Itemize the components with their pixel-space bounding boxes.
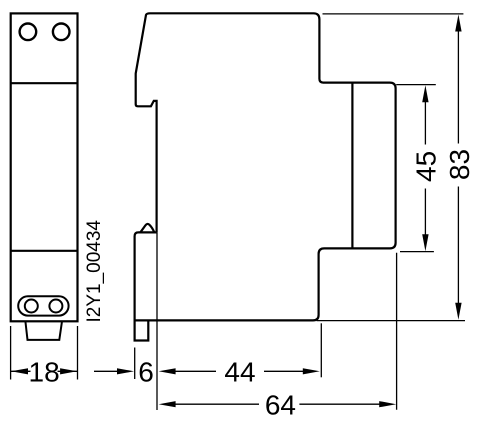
svg-text:44: 44 (224, 356, 255, 387)
dimension 18 arrowhead right (60, 368, 77, 374)
dimension 64 arrowhead right (379, 401, 396, 407)
dimension 6 outside arrow tail (94, 370, 122, 372)
dimension 18 line left segment (11, 370, 31, 372)
dimension 64 line right segment (299, 403, 384, 405)
svg-text:6: 6 (138, 356, 154, 387)
dimension 18 line right segment (58, 370, 78, 372)
front view upper divider line (11, 82, 78, 84)
din rail clip lower ledge and foot (135, 232, 157, 340)
dimension 45 arrowhead down (422, 234, 428, 251)
dimension 44 arrowhead right (303, 368, 320, 374)
dimension 64 line left segment (172, 403, 259, 405)
dimension 44 line left segment (172, 370, 216, 372)
front bezel inner edge line (351, 83, 353, 249)
bottom connector tab of front view (25, 321, 62, 340)
dimension 45 line lower segment (424, 189, 426, 239)
dimension 45 arrowhead up (422, 85, 428, 102)
svg-text:18: 18 (29, 356, 60, 387)
lower terminal slot stadium (18, 296, 68, 315)
svg-text:I2Y1_00434: I2Y1_00434 (84, 220, 105, 323)
terminal screw circle right (53, 24, 70, 41)
dimension 44 extension line right (320, 323, 322, 377)
front view lower divider line (11, 250, 78, 252)
front view body rectangle (11, 13, 78, 321)
dimension 6 outside arrowhead (117, 368, 134, 374)
dimension 83 arrowhead up (455, 15, 461, 32)
dimension 64 extension line right (396, 253, 398, 410)
svg-text:64: 64 (265, 389, 296, 420)
dimension 6 extension line left below foot (134, 348, 136, 380)
dimension 64 arrowhead left (159, 401, 176, 407)
svg-text:83: 83 (444, 149, 475, 180)
dimension 45 extension line top (396, 84, 436, 86)
dimension 44 arrowhead left (159, 368, 176, 374)
dimension 83 arrowhead down (455, 303, 461, 320)
dimension 83 line lower segment (457, 187, 459, 308)
dimension 18 extension line right (77, 326, 79, 380)
side view outer outline (135, 13, 396, 320)
dimension 45 line upper segment (424, 99, 426, 145)
dimension 44 line right segment (264, 370, 307, 372)
dimension 18 extension line left (10, 326, 12, 380)
dimension 18 arrowhead left (11, 368, 28, 374)
slot screw circle left (25, 300, 38, 313)
dimension 45 extension line bottom (400, 251, 434, 253)
dimension 83 line upper segment (457, 28, 459, 144)
dimension 83 extension line bottom (317, 320, 466, 322)
svg-text:45: 45 (410, 151, 441, 182)
terminal screw circle left (20, 24, 37, 41)
slot screw circle right (49, 300, 62, 313)
shared extension line at rail seat (156, 232, 158, 410)
dimension 83 extension line top (323, 13, 464, 15)
din rail clip latch hump (140, 224, 154, 232)
